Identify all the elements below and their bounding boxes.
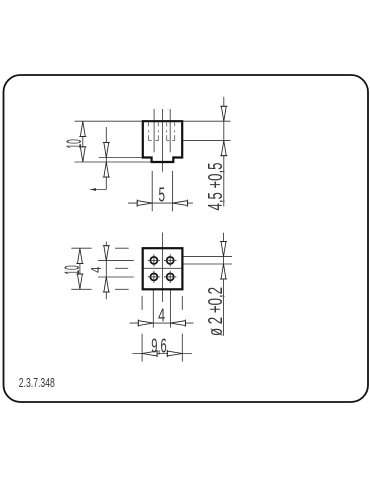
arrow 9,6 left (points left): [142, 350, 157, 357]
drawing sheet border frame: [4, 75, 369, 402]
extension line square top (dash near dim): [71, 247, 91, 249]
svg-text:4,5 +0,5: 4,5 +0,5: [205, 163, 227, 211]
hole bottom-left: [148, 271, 160, 283]
dimension line 4.5+0.5 (top view, right): [223, 97, 225, 207]
svg-text:5: 5: [158, 185, 165, 207]
extension line 5-dim right: [172, 171, 174, 212]
svg-text:4: 4: [88, 267, 105, 273]
arrow 4-rows lower (up): [103, 277, 110, 292]
hole top-left: [148, 254, 160, 266]
dimension line 4 rows (bottom view): [105, 242, 107, 300]
extension line square bottom (dash near dim): [71, 288, 91, 290]
svg-text:10: 10: [61, 265, 84, 275]
arrow 4.5 upper (down): [220, 106, 227, 121]
arrow 5 right (points left): [173, 200, 188, 207]
extension line body top (right): [182, 120, 230, 122]
arrow tab-height lower (up): [103, 162, 110, 177]
dimension line 9,6 (below bottom view): [132, 353, 192, 355]
arrow 10-bottom down: [76, 274, 83, 289]
horizontal centerline stub left: [115, 267, 128, 269]
svg-text:ø 2 +0,2: ø 2 +0,2: [205, 287, 227, 336]
extension line square top (dash near square): [115, 247, 129, 249]
extension line tab bottom (left): [75, 161, 152, 163]
extension line hole row top: [98, 260, 134, 262]
extension line square right edge (dashes below): [181, 296, 183, 310]
svg-text:4: 4: [158, 306, 165, 326]
extension line hole row bottom: [98, 276, 134, 278]
extension line square bottom (dash near square): [115, 288, 129, 290]
arrow 10-bottom up: [76, 248, 83, 263]
arrow dia lower (up): [220, 264, 227, 279]
svg-text:10: 10: [63, 139, 86, 149]
horizontal centerline of square: [143, 267, 183, 269]
vertical centerline of square: [162, 233, 164, 303]
arrow 9,6 right (points right): [167, 350, 182, 357]
arrow 10-top down: [79, 147, 86, 162]
arrow 4.5 lower (up): [220, 141, 227, 156]
dimension line 10 (top view, left): [82, 121, 84, 162]
svg-text:9,6: 9,6: [151, 335, 167, 357]
arrow 4-cols right (points left): [170, 320, 185, 327]
extension line body top (left): [75, 120, 143, 122]
hidden hole bottom ticks: [149, 140, 175, 142]
hidden hole wall line 1: [148, 123, 150, 141]
leader elbow of tab-height dimension: [90, 189, 106, 191]
hidden hole wall line 2: [157, 123, 159, 141]
arrow tab-height upper (down): [103, 142, 110, 157]
extension line col right below square: [169, 289, 171, 327]
dimension line 10 (bottom view, left): [79, 248, 81, 289]
arrow 4-cols left (points right): [138, 320, 153, 327]
arrow 4-rows upper (down): [103, 246, 110, 261]
leader arrowhead: [90, 188, 96, 191]
pin centerline left: [153, 109, 155, 152]
hidden hole wall line 4: [174, 123, 176, 141]
extension line square left edge (dashes below): [141, 296, 143, 310]
dimension line tab height (top view): [105, 127, 107, 190]
pin centerline right: [169, 109, 171, 152]
pin centerline middle: [162, 109, 164, 172]
extension line col left below square: [152, 289, 154, 327]
svg-text:2.3.7.348: 2.3.7.348: [19, 376, 55, 390]
top view body outline: [143, 121, 182, 162]
arrow dia upper (down): [220, 242, 227, 257]
arrow 5 left (points right): [137, 200, 152, 207]
extension line hole bottom (right): [182, 140, 230, 142]
hole top-right: [164, 254, 176, 266]
dimension line 5 (below top view): [128, 202, 193, 204]
hole bottom-right: [164, 271, 176, 283]
extension line hole bottom tangent (right): [182, 263, 232, 265]
hidden hole wall line 3: [166, 123, 168, 141]
dimension line dia 2 (bottom view, right): [223, 233, 225, 336]
extension line body bottom main (left): [99, 157, 143, 159]
arrow 10-top up: [79, 121, 86, 136]
bottom view square outline: [143, 248, 183, 289]
extension line hole top tangent (right): [182, 256, 232, 258]
extension line 5-dim left: [151, 171, 153, 212]
dimension line 4 cols (below bottom view): [130, 322, 194, 324]
